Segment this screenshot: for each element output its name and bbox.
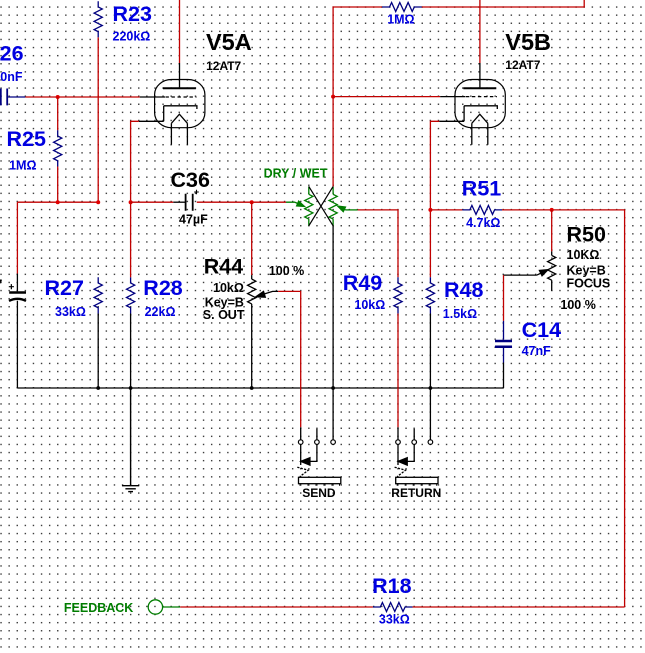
wire R28 bottom [130, 314, 132, 389]
node junction [56, 200, 60, 204]
jack SEND [297, 427, 341, 486]
svg-text:R48: R48 [444, 278, 483, 302]
wire R50 wiper down to C14 [503, 275, 505, 321]
potentiometer R50 [504, 251, 556, 291]
node junction R25 top [56, 95, 60, 99]
tube V5A [139, 63, 205, 145]
svg-text:SEND: SEND [302, 486, 336, 500]
svg-text:1MΩ: 1MΩ [9, 158, 36, 172]
node FEEDBACK terminal circle [148, 600, 162, 614]
svg-text:RETURN: RETURN [391, 486, 441, 500]
svg-text:R23: R23 [113, 2, 152, 26]
svg-text:R50: R50 [567, 222, 606, 246]
svg-text:1MΩ: 1MΩ [387, 12, 414, 26]
wire to R51 [430, 209, 462, 211]
svg-text:C36: C36 [171, 168, 210, 192]
svg-text:7: 7 [0, 277, 2, 291]
svg-text:Key=B: Key=B [567, 263, 606, 277]
wire pot right bottom to SEND pin3 [332, 226, 334, 440]
potentiometer R44 [248, 275, 279, 388]
wire row y=202 left net [17, 201, 98, 203]
wire R27 bottom [97, 314, 99, 389]
svg-text:33kΩ: 33kΩ [379, 613, 410, 627]
node bus junctions [96, 386, 432, 390]
svg-text:12AT7: 12AT7 [206, 59, 241, 73]
wire R25 top lead [57, 97, 59, 130]
wire V5B cathode down to R51 row [430, 121, 439, 277]
pot cross wires [309, 186, 333, 225]
svg-text:C26: C26 [0, 42, 24, 66]
resistor R51 [462, 205, 502, 214]
svg-text:R18: R18 [372, 574, 411, 598]
svg-text:22kΩ: 22kΩ [145, 305, 176, 319]
svg-text:12AT7: 12AT7 [505, 58, 540, 72]
tube V5B [439, 63, 505, 145]
potentiometer DRY/WET left gang [305, 186, 313, 225]
svg-text:S. OUT: S. OUT [203, 308, 245, 322]
wire R49 bottom to RETURN pin1 [397, 314, 399, 428]
svg-text:10kΩ: 10kΩ [213, 281, 244, 295]
svg-text:47µF: 47µF [179, 212, 208, 226]
pot right wiper green arrow [337, 206, 357, 212]
ground [122, 388, 139, 492]
wire R44 top [251, 202, 253, 275]
potentiometer DRY/WET right gang [329, 186, 337, 225]
svg-text:R49: R49 [343, 271, 382, 295]
wire R25 bottom [57, 167, 59, 203]
capacitor C14 [495, 321, 512, 363]
svg-text:1.5kΩ: 1.5kΩ [443, 307, 477, 321]
node junction [96, 200, 100, 204]
resistor Rtop 1M horizontal [382, 3, 422, 12]
wire pot out to R49 [358, 210, 398, 277]
wire R48 bottom through bus to RETURN pin3 [429, 314, 431, 440]
svg-text:100 %: 100 % [560, 298, 595, 312]
svg-text:FOCUS: FOCUS [567, 276, 611, 290]
node junction C36/R44 [250, 200, 254, 204]
jack RETURN [395, 427, 438, 486]
capacitor C27 electrolytic at left edge [9, 274, 26, 388]
wire V5B plate column [479, 0, 481, 63]
wire R51 right to right edge column [502, 210, 625, 607]
svg-text:V5B: V5B [505, 29, 551, 55]
wire feedback to R18 [180, 606, 373, 608]
svg-text:R25: R25 [7, 127, 46, 151]
svg-text:33kΩ: 33kΩ [55, 305, 86, 319]
wire pot column down [332, 97, 334, 187]
svg-text:10kΩ: 10kΩ [354, 298, 385, 312]
svg-text:DRY / WET: DRY / WET [264, 167, 328, 181]
svg-text:C14: C14 [522, 318, 561, 342]
node junction R51 left [428, 208, 432, 212]
node junction cathode/C36/R28 [129, 200, 133, 204]
svg-text:R44: R44 [204, 254, 243, 278]
svg-text:4.7kΩ: 4.7kΩ [466, 216, 500, 230]
svg-text:220kΩ: 220kΩ [113, 30, 151, 44]
svg-text:10KΩ: 10KΩ [567, 248, 600, 262]
svg-text:R27: R27 [45, 276, 84, 300]
svg-text:R28: R28 [143, 276, 182, 300]
wire C26 to V5A grid [25, 96, 139, 98]
pot left wiper green arrow [286, 201, 305, 207]
svg-text:10nF: 10nF [0, 70, 23, 84]
resistor R23 (zigzag, 220k) [94, 1, 102, 37]
wire node to C36 [131, 201, 174, 203]
wire R44 wiper to SEND [278, 291, 301, 427]
capacitor C36 [173, 190, 199, 211]
wire R28 top [130, 202, 132, 277]
svg-text:R51: R51 [462, 177, 501, 201]
wire V5A cathode to node [131, 121, 139, 202]
wire C36 right to pot [197, 201, 286, 203]
wire R23 bottom to R27 top [97, 37, 99, 202]
node junction top of pot column [331, 95, 335, 99]
wire C14 bottom to bus [503, 363, 505, 389]
wire V5A plate up [179, 0, 181, 63]
wire feedback green stub [163, 606, 181, 608]
svg-text:100 %: 100 % [269, 264, 304, 278]
resistor R18 [373, 603, 413, 612]
wire top net: from corner above pot column to top-right corner [333, 0, 584, 97]
resistor R49 [394, 277, 402, 313]
capacitor C26 [1, 89, 26, 106]
svg-text:V5A: V5A [206, 29, 252, 55]
wire R18 right [413, 606, 625, 608]
resistor R27 [94, 277, 102, 313]
svg-text:FEEDBACK: FEEDBACK [64, 601, 133, 615]
svg-text:47nF: 47nF [522, 344, 552, 358]
wire V5B grid [333, 96, 440, 98]
ground bus wire [17, 387, 503, 389]
node junction R50 top [550, 208, 554, 212]
wire left column down to cap [16, 202, 18, 273]
resistor R48 [426, 277, 434, 313]
resistor R25 (1M) [54, 130, 62, 166]
resistor R28 [127, 277, 135, 313]
wire R50 top [551, 210, 553, 252]
